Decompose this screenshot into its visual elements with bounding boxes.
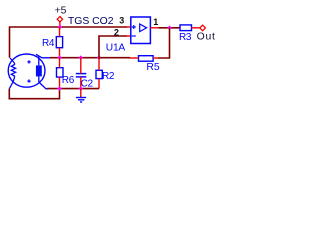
node junction C2 top	[79, 55, 84, 60]
svg-text:R4: R4	[42, 38, 55, 49]
wire +5 stub	[59, 22, 61, 27]
port Out	[200, 25, 206, 31]
sensor heater bottom pin diagonal	[9, 78, 14, 89]
op-amp U1A	[131, 17, 151, 44]
resistor R4	[56, 37, 62, 48]
node junction R4/R6	[57, 55, 62, 60]
node junction R2/pin2 riser	[97, 55, 102, 60]
ground stub	[80, 89, 82, 98]
wire feedback down and left to R5	[158, 28, 170, 58]
svg-text:3: 3	[119, 16, 124, 26]
wire top rail from left corner to op-amp pin 3	[10, 27, 128, 58]
wire R5 to junction	[99, 57, 130, 59]
wire R6 top stub	[59, 58, 61, 68]
svg-text:R6: R6	[62, 75, 75, 86]
svg-text:2: 2	[114, 28, 119, 38]
sensor heater zigzag	[11, 63, 15, 78]
sensor TGS circle	[8, 54, 45, 87]
sensor element top lead	[38, 56, 40, 66]
sensor element body	[36, 65, 42, 76]
node junction at +5 tap	[58, 25, 63, 30]
svg-text:U1A: U1A	[106, 43, 126, 54]
pin 2 stub red	[126, 35, 131, 37]
wire R3 right stub red	[192, 27, 201, 29]
pin 3 stub red	[126, 26, 131, 28]
svg-text:TGS CO2: TGS CO2	[68, 16, 114, 27]
svg-text:R5: R5	[146, 62, 160, 73]
svg-text:C2: C2	[81, 78, 94, 89]
svg-text:1: 1	[153, 17, 158, 27]
svg-text:+5: +5	[55, 6, 67, 17]
sensor element bottom lead	[38, 76, 40, 82]
sensor element top diagonal pin	[36, 54, 50, 58]
resistor R6	[57, 68, 64, 77]
resistor R3	[180, 25, 192, 31]
node junction ground	[79, 86, 84, 91]
wire heater bottom loop	[9, 89, 59, 99]
wire R2 bottom stub	[98, 79, 100, 89]
node junction loop return	[57, 86, 62, 91]
wire C2 bottom stub	[80, 77, 82, 89]
capacitor C2	[76, 73, 87, 75]
svg-text:Out: Out	[197, 32, 216, 43]
wire riser to pin 2 net	[99, 36, 127, 58]
power port +5	[57, 17, 62, 22]
wire R2 top stub	[98, 58, 100, 71]
wire R5 left stub red	[130, 57, 139, 59]
svg-text:R2: R2	[102, 71, 115, 82]
wire R5 right stub red	[153, 57, 158, 59]
sensor heater top pin diagonal	[10, 58, 15, 63]
ground	[76, 98, 86, 103]
wire C2 top stub	[80, 58, 82, 74]
sensor contact dot bottom	[27, 79, 30, 82]
wire mid rail	[50, 57, 99, 59]
wire R6 bottom stub	[59, 77, 61, 89]
wire output net	[159, 27, 180, 29]
node junction feedback	[167, 26, 172, 31]
wire bottom rail	[47, 88, 99, 90]
sensor element bottom diagonal pin	[39, 82, 49, 89]
resistor R5	[139, 56, 154, 62]
sensor contact dot top	[27, 60, 30, 63]
resistor R2	[96, 70, 102, 78]
wire R4 bottom stub	[59, 48, 61, 58]
wire R4 top stub	[59, 27, 61, 37]
svg-text:R3: R3	[179, 32, 192, 43]
pin 1 output stub red	[151, 27, 159, 29]
